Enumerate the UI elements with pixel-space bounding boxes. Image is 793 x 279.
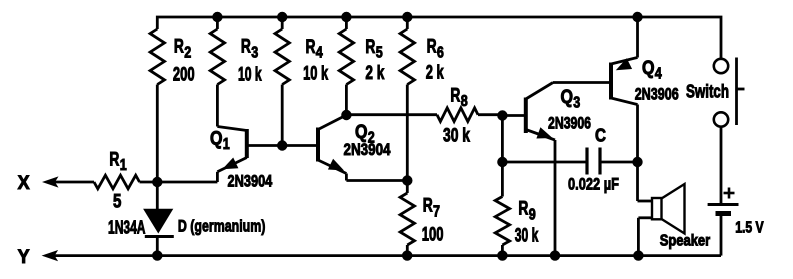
svg-text:30 k: 30 k (515, 226, 539, 247)
svg-text:2N3904: 2N3904 (344, 140, 391, 159)
svg-text:C: C (595, 125, 606, 145)
svg-text:D (germanium): D (germanium) (178, 217, 266, 236)
svg-text:7: 7 (433, 203, 440, 220)
svg-text:3: 3 (573, 94, 580, 111)
svg-text:R: R (518, 199, 528, 220)
svg-text:6: 6 (437, 44, 444, 61)
svg-text:1N34A: 1N34A (108, 218, 146, 238)
svg-text:5: 5 (113, 191, 122, 212)
svg-text:2 k: 2 k (426, 63, 444, 84)
svg-text:2N3904: 2N3904 (228, 172, 273, 191)
svg-text:30 k: 30 k (443, 126, 470, 147)
svg-text:R: R (427, 37, 437, 58)
svg-text:Speaker: Speaker (660, 233, 711, 250)
svg-text:100: 100 (422, 224, 444, 245)
svg-text:2: 2 (184, 44, 191, 61)
svg-text:9: 9 (529, 206, 536, 223)
svg-text:2 k: 2 k (365, 63, 384, 84)
svg-text:Switch: Switch (686, 82, 729, 102)
svg-text:10 k: 10 k (303, 64, 328, 85)
svg-text:0.022 µF: 0.022 µF (568, 175, 619, 194)
svg-text:4: 4 (655, 66, 662, 83)
svg-text:Q: Q (642, 58, 655, 79)
svg-text:2N3906: 2N3906 (635, 85, 679, 104)
svg-text:R: R (109, 149, 119, 170)
svg-text:5: 5 (376, 45, 383, 62)
svg-text:R: R (365, 37, 375, 58)
svg-text:1.5 V: 1.5 V (735, 220, 764, 237)
svg-text:Q: Q (210, 128, 223, 149)
svg-text:R: R (306, 37, 316, 58)
svg-text:200: 200 (173, 65, 195, 86)
svg-text:Y: Y (18, 247, 30, 268)
svg-text:R: R (174, 37, 184, 58)
svg-text:R: R (241, 37, 251, 58)
svg-text:Q: Q (561, 87, 574, 108)
svg-text:1: 1 (120, 157, 127, 174)
svg-text:X: X (18, 173, 30, 194)
svg-text:8: 8 (461, 93, 468, 110)
svg-text:R: R (450, 86, 460, 107)
svg-text:10 k: 10 k (238, 65, 262, 86)
svg-text:1: 1 (223, 136, 230, 153)
svg-text:3: 3 (251, 44, 258, 61)
svg-text:2N3906: 2N3906 (548, 114, 591, 133)
svg-text:R: R (423, 196, 433, 217)
svg-text:4: 4 (316, 45, 323, 62)
